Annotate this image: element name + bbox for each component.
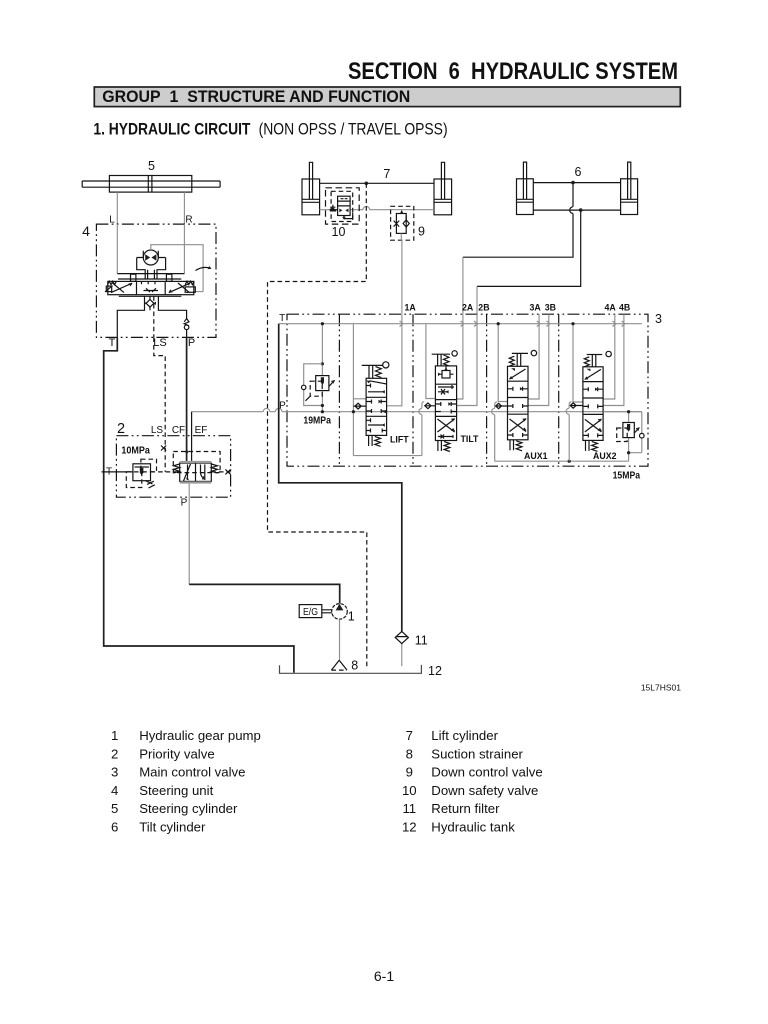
svg-text:3B: 3B bbox=[545, 303, 556, 313]
return filter 11 bbox=[395, 631, 408, 643]
group banner bbox=[94, 87, 680, 107]
wire steering LS to priority valve bbox=[154, 337, 165, 472]
valve 9 enclosure bbox=[391, 206, 414, 240]
priority spring left bbox=[174, 464, 180, 473]
svg-text:R: R bbox=[185, 215, 192, 226]
svg-text:Return filter: Return filter bbox=[431, 801, 500, 816]
svg-text:15MPa: 15MPa bbox=[613, 471, 641, 482]
MCV section divider 1 bbox=[338, 314, 340, 466]
wire LS dashed from lift junction to tank bbox=[268, 183, 367, 668]
MCV internal P line bbox=[192, 408, 642, 411]
wire aux2 tank vertical bbox=[573, 324, 583, 402]
wire tilt tank vertical bbox=[426, 324, 436, 399]
svg-text:AUX1: AUX1 bbox=[524, 451, 548, 461]
wire relief top bbox=[321, 324, 323, 376]
wire L from cylinder to steering unit bbox=[116, 192, 118, 224]
relief valve 15MPa body bbox=[623, 423, 634, 438]
junction on wire 7 bbox=[365, 182, 369, 186]
wire steering P to priority CF bbox=[186, 337, 188, 463]
relief adjust arrow bbox=[329, 380, 335, 386]
AUX2 top spring bbox=[584, 357, 589, 367]
svg-text:Lift cylinder: Lift cylinder bbox=[431, 728, 498, 743]
lift cylinder right body bbox=[434, 179, 452, 215]
svg-text:CF: CF bbox=[172, 425, 185, 436]
wire lift bottom drain bbox=[353, 455, 422, 457]
relief pilot loop bbox=[304, 364, 323, 412]
svg-text:GROUP 1 STRUCTURE AND FUNCTI: GROUP 1 STRUCTURE AND FUNCTION bbox=[102, 88, 410, 106]
svg-text:P: P bbox=[279, 400, 286, 411]
svg-text:Main control valve: Main control valve bbox=[139, 765, 245, 780]
svg-text:Tilt cylinder: Tilt cylinder bbox=[139, 820, 206, 835]
svg-text:3: 3 bbox=[111, 765, 118, 780]
relief valve 19MPa pilot box bbox=[310, 381, 322, 396]
wire 2B to tilt spool bbox=[457, 314, 477, 405]
svg-text:3A: 3A bbox=[530, 303, 542, 313]
svg-text:P: P bbox=[188, 337, 195, 349]
lift cylinder left body bbox=[302, 179, 320, 215]
wire tilt rod to port 2B bbox=[477, 210, 581, 286]
svg-text:8: 8 bbox=[406, 746, 413, 761]
wire tilt head to port 2A bbox=[463, 183, 573, 258]
LIFT spool internals top bbox=[366, 381, 387, 392]
svg-text:1A: 1A bbox=[405, 303, 417, 313]
lift check diamond bbox=[353, 403, 366, 409]
junction tilt rod bbox=[579, 208, 583, 212]
tilt cylinder right body bbox=[621, 179, 638, 215]
svg-text:15L7HS01: 15L7HS01 bbox=[641, 683, 681, 693]
wire aux1 tank vertical bbox=[498, 324, 507, 402]
wire 1A from valve 9 to MCV bbox=[400, 233, 403, 314]
svg-text:L: L bbox=[109, 215, 115, 226]
wire tilt head side bbox=[533, 182, 620, 184]
svg-text:Down control valve: Down control valve bbox=[431, 765, 542, 780]
valve 10 drain hook bbox=[344, 213, 353, 219]
svg-text:12: 12 bbox=[402, 820, 417, 835]
priority valve enclosure bbox=[116, 436, 230, 498]
AUX1 bottom spring bbox=[510, 440, 522, 451]
svg-text:8: 8 bbox=[351, 658, 358, 672]
AUX2 spool top lever bbox=[587, 354, 603, 356]
TILT spool body bbox=[435, 366, 456, 441]
spool section arrows right bbox=[169, 283, 190, 293]
valve 10 check arrows bbox=[339, 209, 348, 213]
TILT internals section4 cross bbox=[437, 419, 454, 439]
svg-text:2: 2 bbox=[111, 746, 118, 761]
svg-text:LS: LS bbox=[153, 337, 166, 349]
TILT internals section1 relief sub bbox=[442, 371, 450, 379]
hydraulic tank 12 bbox=[280, 665, 422, 673]
LIFT spool body bbox=[366, 378, 387, 435]
AUX2 spool body bbox=[583, 367, 603, 441]
svg-text:Suction strainer: Suction strainer bbox=[431, 746, 523, 761]
TILT bottom spring bbox=[438, 441, 450, 452]
svg-text:2: 2 bbox=[117, 421, 125, 437]
valve 9 restrictor mark bbox=[394, 221, 400, 227]
motor port lines bbox=[148, 270, 155, 279]
valve 10 orifice marks bbox=[341, 198, 348, 200]
priority relief spring bbox=[146, 481, 155, 488]
valve 9 check mark bbox=[403, 220, 409, 227]
svg-text:5: 5 bbox=[148, 159, 155, 173]
wire pump discharge bbox=[189, 584, 340, 603]
MCV section divider 4 bbox=[558, 314, 560, 466]
svg-text:5: 5 bbox=[111, 801, 118, 816]
wire R inside unit bbox=[183, 224, 185, 274]
relief valve 15MPa pilot box bbox=[617, 428, 628, 442]
steering cylinder piston bbox=[148, 176, 152, 193]
wire aux2 drain vertical with hop bbox=[566, 404, 569, 461]
svg-text:Down safety valve: Down safety valve bbox=[431, 783, 538, 798]
svg-text:10: 10 bbox=[332, 225, 346, 239]
MCV enclosure bbox=[287, 314, 648, 466]
AUX1 internals top bbox=[510, 369, 526, 379]
priority relief pilot box upper bbox=[141, 459, 157, 472]
wire steering T return to tank bbox=[104, 337, 294, 672]
LIFT top spring bbox=[376, 367, 382, 378]
priority relief valve body bbox=[133, 464, 151, 481]
TILT top spring bbox=[444, 355, 450, 366]
wire priority P to pump bbox=[188, 484, 190, 585]
wire L inside unit bbox=[116, 224, 118, 274]
wire aux2 work to relief bbox=[603, 412, 642, 462]
lift cylinder right piston bbox=[434, 199, 452, 202]
wire tilt drain vertical with hop bbox=[419, 405, 422, 456]
svg-text:Steering cylinder: Steering cylinder bbox=[139, 801, 238, 816]
svg-text:Hydraulic tank: Hydraulic tank bbox=[431, 820, 515, 835]
wire 3A to aux1 spool bbox=[528, 314, 539, 399]
svg-text:SECTION 6 HYDRAULIC SYSTEM: SECTION 6 HYDRAULIC SYSTEM bbox=[348, 58, 678, 85]
wire filter to tank bbox=[401, 644, 403, 667]
svg-text:LS: LS bbox=[151, 425, 164, 436]
svg-text:4B: 4B bbox=[619, 303, 630, 313]
svg-text:9: 9 bbox=[406, 765, 413, 780]
svg-text:4A: 4A bbox=[605, 303, 617, 313]
svg-text:2B: 2B bbox=[478, 303, 489, 313]
AUX2 bottom spring bbox=[586, 440, 598, 451]
priority spool right arrows bbox=[201, 465, 205, 481]
svg-text:E/G: E/G bbox=[303, 606, 318, 618]
priority spool body bbox=[180, 463, 212, 481]
svg-text:4: 4 bbox=[82, 223, 90, 239]
wire aux bottom drain bbox=[495, 460, 629, 462]
svg-text:T: T bbox=[279, 313, 285, 324]
junction CF pilot bbox=[185, 450, 188, 453]
MCV section divider 3 bbox=[486, 314, 488, 466]
priority spool left arrows bbox=[184, 464, 191, 481]
LIFT spool top lever bbox=[362, 364, 383, 366]
junction tilt head bbox=[571, 181, 575, 185]
wire relief to spool dashed bbox=[151, 471, 180, 473]
MCV internal T line bbox=[279, 323, 642, 325]
LS pilot line inside unit bbox=[153, 296, 155, 337]
manifold line bbox=[117, 273, 184, 275]
engine E/G box bbox=[299, 605, 322, 618]
svg-text:10: 10 bbox=[402, 783, 417, 798]
svg-text:AUX2: AUX2 bbox=[593, 451, 617, 461]
AUX1 spool body bbox=[508, 366, 529, 440]
wire 4B to aux2 spool bbox=[603, 314, 624, 405]
svg-text:11: 11 bbox=[402, 801, 416, 816]
svg-text:10MPa: 10MPa bbox=[121, 445, 150, 457]
wire spool to T port bbox=[117, 296, 144, 337]
steering cylinder rod bbox=[82, 181, 220, 187]
spool top plate bbox=[118, 278, 181, 280]
feedback line from motor to spool bbox=[151, 245, 203, 292]
TILT internals section3 bbox=[435, 402, 456, 414]
wire aux1 drain vertical with hop bbox=[492, 405, 495, 462]
suction strainer 8 bbox=[331, 660, 347, 670]
tilt cylinder left rod bbox=[523, 162, 526, 199]
spool section arrows left bbox=[111, 283, 132, 293]
svg-text:1: 1 bbox=[111, 728, 118, 743]
check valve under spool bbox=[149, 296, 151, 310]
steering unit enclosure bbox=[96, 224, 216, 337]
tilt check diamond bbox=[425, 403, 436, 409]
svg-text:9: 9 bbox=[418, 225, 425, 239]
lift cylinder left piston bbox=[302, 199, 320, 202]
svg-text:3: 3 bbox=[655, 312, 662, 326]
right dashed stub with cross bbox=[211, 471, 230, 473]
wire priority EF to MCV P bbox=[191, 412, 193, 463]
wire 3B to aux1 spool bbox=[528, 314, 549, 405]
wire R from cylinder to steering unit bbox=[183, 192, 185, 224]
steering cylinder body bbox=[109, 176, 191, 193]
svg-text:T: T bbox=[109, 337, 116, 349]
LIFT spool internals bottom bbox=[366, 418, 387, 432]
wire MCV T to return filter bbox=[279, 324, 402, 632]
svg-text:4: 4 bbox=[111, 783, 118, 798]
gerotor motor bbox=[143, 250, 158, 265]
tilt cylinder left piston bbox=[517, 199, 534, 202]
wire lift stub top bbox=[353, 398, 366, 400]
valve 10 inner dashed box bbox=[331, 191, 353, 221]
AUX1 internals bottom cross bbox=[510, 419, 527, 432]
TILT spool top lever bbox=[432, 353, 450, 355]
priority pilot dashed box bbox=[173, 452, 220, 473]
svg-text:19MPa: 19MPa bbox=[303, 416, 331, 427]
lift cylinder left rod bbox=[309, 162, 312, 199]
tilt cylinder left body bbox=[517, 179, 534, 215]
wire 1A to lift spool bbox=[387, 314, 402, 406]
AUX1 top spring bbox=[509, 356, 514, 366]
lift cylinder right rod bbox=[441, 162, 444, 199]
wire 7 head side bbox=[320, 182, 434, 184]
top tab left bbox=[131, 274, 136, 281]
valve 9 body bbox=[396, 214, 406, 234]
aux2 check diamond bbox=[570, 403, 583, 408]
valve 9 inlet stub bbox=[400, 210, 403, 213]
svg-text:1. HYDRAULIC CIRCUIT: 1. HYDRAULIC CIRCUIT bbox=[93, 120, 250, 139]
AUX2 internals bottom cross bbox=[585, 419, 602, 432]
svg-text:Steering unit: Steering unit bbox=[139, 783, 213, 798]
wire pump suction bbox=[339, 619, 341, 660]
MCV section divider 2 bbox=[412, 314, 414, 466]
svg-text:12: 12 bbox=[428, 664, 442, 678]
spring left bbox=[108, 281, 117, 284]
pump shaft bbox=[322, 610, 332, 613]
relief valve 19MPa body bbox=[316, 376, 329, 391]
svg-text:Priority valve: Priority valve bbox=[139, 746, 214, 761]
AUX2 internals middle bbox=[583, 387, 603, 408]
svg-text:Hydraulic gear pump: Hydraulic gear pump bbox=[139, 728, 261, 743]
steering spool valve body bbox=[108, 281, 194, 294]
wire lift supply vertical bbox=[352, 324, 354, 456]
TILT internals section2 bbox=[438, 389, 448, 395]
priority spring right bbox=[211, 464, 217, 473]
svg-text:6: 6 bbox=[111, 820, 118, 835]
spool bottom plate bbox=[119, 295, 182, 297]
flow chevrons on T line bbox=[400, 321, 625, 327]
AUX1 spool top lever bbox=[512, 352, 528, 354]
relief 15MPa adjust arrow bbox=[634, 428, 639, 433]
spool section marks centre bbox=[142, 281, 159, 292]
svg-text:TILT: TILT bbox=[461, 434, 480, 444]
tilt cylinder right piston bbox=[621, 199, 638, 202]
end block right bbox=[185, 287, 195, 292]
LIFT bottom spring bbox=[369, 435, 381, 446]
svg-text:LIFT: LIFT bbox=[390, 435, 409, 445]
wire lift rod side bbox=[320, 206, 434, 209]
svg-text:7: 7 bbox=[406, 728, 413, 743]
hydraulic gear pump 1 bbox=[332, 604, 348, 620]
anti-cavitation check on P bbox=[184, 319, 189, 326]
aux1 check diamond bbox=[496, 403, 508, 408]
motor bracket bbox=[137, 251, 166, 279]
svg-text:6: 6 bbox=[575, 165, 582, 179]
valve 10 body bbox=[338, 196, 351, 215]
wire T to relief bbox=[102, 471, 133, 473]
svg-text:P: P bbox=[181, 498, 188, 509]
svg-text:11: 11 bbox=[415, 634, 428, 648]
wire tilt rod side bbox=[533, 209, 620, 211]
pilot box left bbox=[106, 286, 111, 292]
tilt cylinder right rod bbox=[628, 162, 631, 199]
AUX2 internals top bbox=[585, 369, 601, 379]
AUX1 internals middle bbox=[508, 387, 529, 408]
svg-text:EF: EF bbox=[195, 425, 208, 436]
priority relief pilot box bbox=[126, 472, 142, 488]
svg-text:6-1: 6-1 bbox=[374, 968, 394, 984]
valve 10 inlet symbol bbox=[330, 205, 338, 211]
top tab right bbox=[166, 274, 172, 281]
svg-text:2A: 2A bbox=[462, 303, 474, 313]
valve 10 enclosure bbox=[326, 188, 360, 224]
svg-text:7: 7 bbox=[383, 167, 390, 181]
spring right bbox=[185, 281, 194, 284]
variable arc symbol bbox=[196, 267, 211, 270]
svg-text:(NON OPSS / TRAVEL OPSS): (NON OPSS / TRAVEL OPSS) bbox=[259, 120, 448, 139]
wire spool to P port bbox=[158, 296, 186, 337]
wire 4A to aux2 spool bbox=[603, 314, 615, 399]
LS orifice cross bbox=[161, 446, 166, 451]
LIFT spool internals middle bbox=[366, 400, 387, 414]
svg-text:1: 1 bbox=[348, 610, 355, 624]
wire 2A to tilt spool bbox=[457, 314, 463, 399]
